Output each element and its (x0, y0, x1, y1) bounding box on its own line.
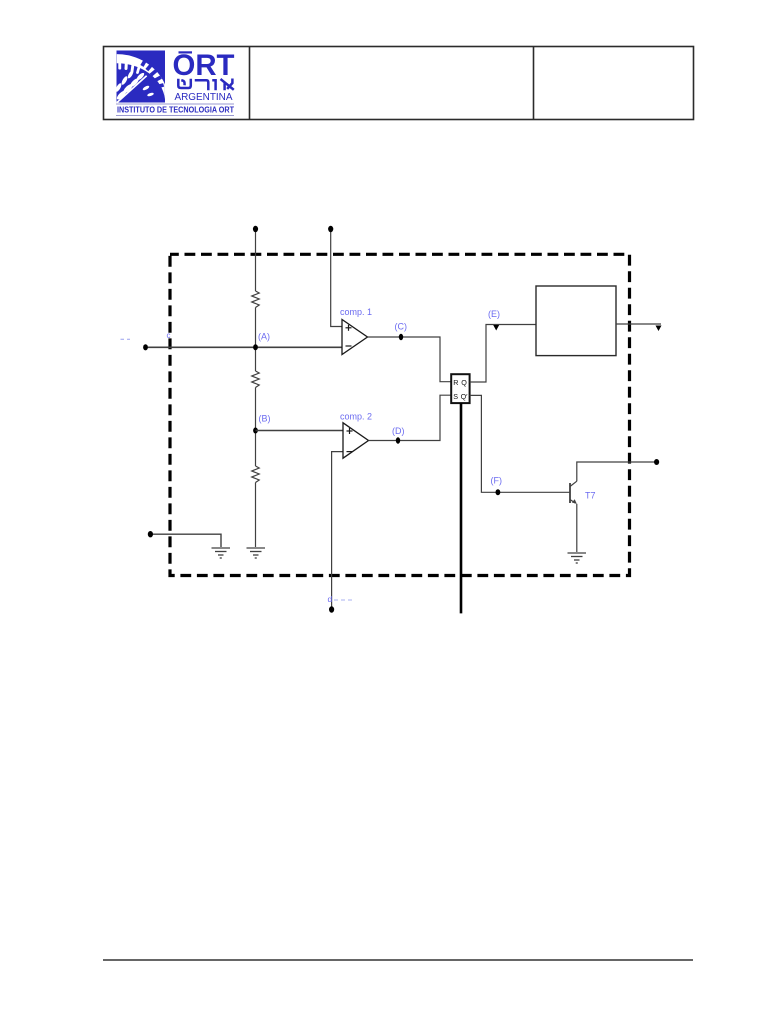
svg-text:ARGENTINA: ARGENTINA (175, 92, 233, 103)
svg-text:T7: T7 (585, 491, 596, 501)
ground pin wire lower left (150, 534, 221, 547)
wire: comp2 minus input to bottom pin (332, 452, 343, 608)
svg-text:Q: Q (461, 378, 467, 387)
node D junction dot (396, 437, 400, 443)
ground pin terminal dot (148, 531, 153, 537)
wire: flip-flop Q' output down to node F and T7 base (470, 395, 570, 492)
wire: input terminal to comp1 minus across node A (146, 346, 343, 348)
wheat leaflets inside disc (114, 70, 154, 103)
wire: pin 2 down to comp1 plus input (331, 229, 342, 327)
rule below instituto (116, 115, 234, 117)
flip-flop box (451, 374, 469, 403)
IC boundary dashed box (170, 254, 630, 575)
output stage box (536, 286, 616, 356)
op-amp comp2 (343, 423, 369, 458)
svg-text:c: c (167, 331, 171, 340)
wire: T7 collector to terminal (577, 462, 657, 481)
ground for resistor chain (247, 548, 266, 558)
faint blue marks left of border (121, 338, 131, 340)
output terminal tick (656, 326, 662, 332)
blue label d with dashes at bottom pin (328, 594, 355, 604)
svg-text:(F): (F) (491, 476, 503, 486)
aleph (222, 80, 233, 89)
header table frame (104, 47, 694, 120)
svg-text:Q′: Q′ (461, 392, 469, 401)
collector terminal dot (654, 459, 659, 465)
resistor R2 (252, 371, 259, 388)
pin dot VCC (253, 226, 258, 232)
wire: R2 to node B to R3 (255, 388, 257, 467)
svg-text:d: d (328, 594, 333, 604)
leaf finger slots top-left (118, 57, 141, 74)
node A junction dot (253, 344, 258, 350)
wire: VCC pin down to node A (resistor chain top) (255, 229, 257, 291)
svg-text:(C): (C) (395, 322, 408, 332)
svg-text:S: S (453, 392, 458, 401)
wire: flip-flop Q output up to node E (470, 325, 536, 383)
resh (196, 80, 208, 89)
ground for T7 (568, 553, 587, 563)
wire: R1 to node A (255, 308, 257, 372)
svg-text:(B): (B) (259, 414, 271, 424)
white crescent of logo (117, 54, 165, 99)
svg-text:(A): (A) (258, 332, 270, 342)
svg-text:INSTITUTO DE TECNOLOGIA ORT: INSTITUTO DE TECNOLOGIA ORT (117, 106, 234, 115)
macron over O (179, 51, 193, 53)
rule above instituto (116, 103, 234, 105)
op-amp comp1 (342, 320, 368, 355)
resistor R3 (252, 466, 259, 483)
pin dot threshold (328, 226, 333, 232)
logo hebrew aleph-vav-resh-tet drawn as paths (178, 80, 233, 89)
svg-text:R: R (453, 378, 458, 387)
wire: T7 emitter down to ground (576, 504, 578, 552)
footer rule (103, 959, 693, 961)
svg-text:(E): (E) (488, 309, 500, 319)
wire: node B to comp2 plus input (256, 430, 344, 432)
transistor T7 (570, 481, 577, 503)
T7 emitter arrowhead (572, 499, 577, 504)
svg-text:ORT: ORT (173, 49, 235, 82)
svg-text:comp. 1: comp. 1 (340, 307, 372, 317)
node E tick (493, 325, 499, 331)
ORT logo emblem square (114, 51, 165, 104)
svg-text:(D): (D) (392, 426, 405, 436)
svg-text:comp. 2: comp. 2 (340, 412, 372, 422)
wire: comp1 output to flip-flop R input (368, 337, 452, 382)
tet (178, 80, 191, 88)
resistor R1 (252, 291, 259, 308)
node B junction dot (253, 428, 258, 434)
flip-flop pin labels (453, 378, 468, 401)
reset line thick wire from flip-flop to bottom (460, 403, 463, 613)
node C junction dot (399, 334, 403, 340)
wire: output box to output terminal (616, 323, 661, 325)
input terminal dot (143, 344, 148, 350)
bottom pin dot trigger (329, 606, 334, 612)
wire: comp2 output to flip-flop S input (369, 395, 452, 440)
wire: R3 down to ground (255, 483, 257, 548)
vav (214, 80, 216, 89)
gear teeth across crescent (140, 58, 164, 89)
node F junction dot (496, 489, 501, 495)
ground symbol lower left (212, 548, 231, 558)
